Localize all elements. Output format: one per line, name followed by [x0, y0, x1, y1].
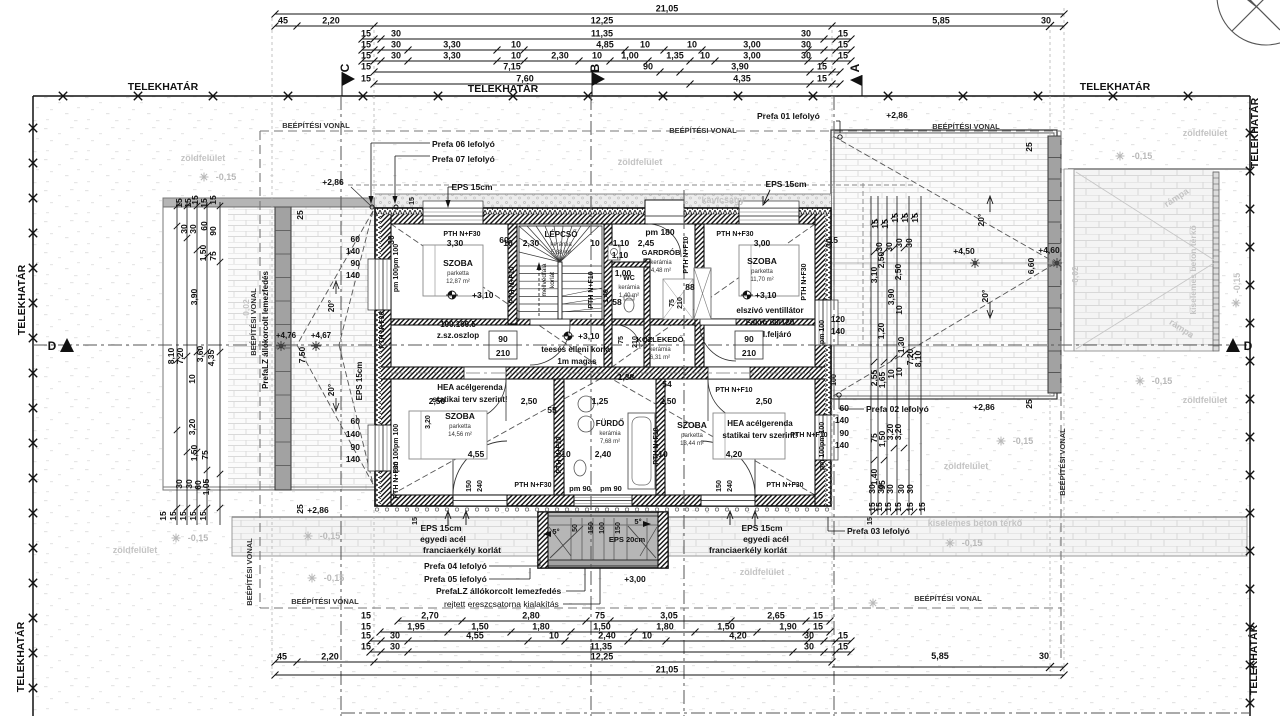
svg-text:3,20: 3,20 [893, 423, 903, 440]
svg-text:FÜRDŐ: FÜRDŐ [596, 419, 624, 428]
svg-text:7,15: 7,15 [503, 62, 521, 72]
svg-text:10: 10 [894, 367, 904, 377]
svg-text:15: 15 [168, 511, 178, 521]
svg-text:+4,60: +4,60 [1038, 245, 1060, 255]
svg-text:54: 54 [662, 379, 672, 389]
svg-text:12,87 m²: 12,87 m² [446, 279, 470, 285]
svg-text:45: 45 [278, 16, 288, 26]
svg-text:100.100.5: 100.100.5 [440, 320, 476, 329]
svg-text:parketta: parketta [449, 424, 471, 430]
svg-text:-0,02: -0,02 [1070, 266, 1080, 286]
svg-text:PTH N+F30: PTH N+F30 [766, 482, 803, 489]
svg-text:10: 10 [894, 305, 904, 315]
svg-text:5°: 5° [634, 517, 641, 526]
svg-text:pm 100pm 100: pm 100pm 100 [819, 422, 826, 470]
svg-text:2,45: 2,45 [638, 238, 655, 248]
svg-text:3,60: 3,60 [195, 345, 205, 362]
svg-text:90: 90 [208, 226, 218, 236]
svg-text:KÖZLEKEDŐ: KÖZLEKEDŐ [636, 335, 683, 344]
svg-text:-0,15: -0,15 [962, 538, 983, 548]
svg-text:PTH N+F30: PTH N+F30 [379, 311, 386, 348]
svg-text:EPS 15cm: EPS 15cm [741, 523, 783, 533]
svg-text:kerámia: kerámia [650, 260, 672, 266]
svg-text:58: 58 [612, 297, 622, 307]
svg-text:30: 30 [391, 51, 401, 61]
svg-text:z.sz.oszlop: z.sz.oszlop [437, 331, 479, 340]
svg-text:20°: 20° [976, 213, 986, 226]
svg-text:BEÉPÍTÉSI VONAL: BEÉPÍTÉSI VONAL [249, 288, 258, 356]
svg-text:100: 100 [831, 374, 838, 386]
svg-text:+3,10: +3,10 [472, 290, 494, 300]
svg-text:4,55: 4,55 [466, 631, 484, 641]
svg-text:EPS 15cm: EPS 15cm [765, 179, 807, 189]
svg-text:7,60: 7,60 [516, 74, 534, 84]
svg-text:+4,67: +4,67 [311, 331, 332, 340]
svg-text:30: 30 [386, 235, 396, 245]
svg-text:15: 15 [838, 40, 848, 50]
svg-text:15: 15 [813, 611, 823, 621]
svg-text:D: D [48, 339, 57, 353]
svg-text:140: 140 [346, 246, 360, 256]
svg-text:1,50: 1,50 [189, 444, 199, 461]
svg-text:zöldfelület: zöldfelület [113, 545, 158, 555]
svg-text:75: 75 [669, 299, 676, 307]
svg-text:1,95: 1,95 [407, 622, 425, 632]
svg-text:25: 25 [295, 210, 305, 220]
svg-text:210: 210 [496, 348, 510, 358]
svg-text:1,25: 1,25 [592, 396, 609, 406]
svg-text:3,10: 3,10 [869, 266, 879, 283]
svg-text:15: 15 [361, 74, 371, 84]
svg-text:150: 150 [716, 480, 723, 492]
svg-text:PTH N+F30: PTH N+F30 [443, 231, 480, 238]
svg-text:240: 240 [727, 480, 734, 492]
svg-text:-0,15: -0,15 [188, 533, 209, 543]
svg-text:60: 60 [499, 235, 509, 245]
svg-text:30: 30 [905, 484, 915, 494]
svg-text:15: 15 [361, 642, 371, 652]
svg-text:30: 30 [188, 224, 198, 234]
svg-text:6,31 m²: 6,31 m² [650, 355, 670, 361]
svg-text:3,90: 3,90 [886, 288, 896, 305]
svg-text:150: 150 [615, 522, 622, 534]
svg-text:10: 10 [642, 631, 652, 641]
svg-text:30: 30 [804, 642, 814, 652]
svg-text:210: 210 [677, 297, 684, 309]
svg-text:3,00: 3,00 [754, 238, 771, 248]
svg-text:12,25: 12,25 [591, 16, 614, 26]
svg-text:-0,15: -0,15 [1152, 376, 1173, 386]
svg-text:PTH N+F30: PTH N+F30 [801, 263, 808, 300]
svg-text:statikai terv szerint!: statikai terv szerint! [432, 395, 507, 404]
svg-text:15: 15 [838, 29, 848, 39]
svg-text:15: 15 [361, 631, 371, 641]
svg-text:150: 150 [466, 480, 473, 492]
svg-text:10: 10 [549, 631, 559, 641]
svg-text:15: 15 [905, 502, 915, 512]
svg-text:1,10: 1,10 [613, 238, 630, 248]
svg-text:LÉPCSŐ: LÉPCSŐ [545, 230, 578, 239]
svg-text:15: 15 [188, 511, 198, 521]
svg-text:15: 15 [361, 40, 371, 50]
svg-text:90: 90 [351, 258, 361, 268]
svg-text:egyedi acél: egyedi acél [420, 534, 466, 544]
svg-text:kiselemes beton térkő: kiselemes beton térkő [1188, 225, 1198, 314]
svg-text:2,40: 2,40 [595, 449, 612, 459]
svg-text:11,35: 11,35 [590, 642, 612, 652]
svg-text:60: 60 [351, 234, 361, 244]
svg-text:Prefa 06 lefolyó: Prefa 06 lefolyó [432, 139, 495, 149]
svg-text:-0,15: -0,15 [1232, 273, 1242, 294]
svg-text:10: 10 [592, 51, 602, 61]
svg-text:90: 90 [744, 334, 754, 344]
svg-text:15: 15 [361, 29, 371, 39]
svg-text:15: 15 [813, 622, 823, 632]
svg-text:5,85: 5,85 [932, 16, 950, 26]
svg-text:zöldfelület: zöldfelület [1183, 395, 1228, 405]
svg-text:1,10: 1,10 [612, 250, 629, 260]
svg-text:Prefa 04 lefolyó: Prefa 04 lefolyó [424, 561, 487, 571]
svg-text:6,60: 6,60 [1026, 257, 1036, 274]
svg-text:TELEKHATÁR: TELEKHATÁR [1080, 80, 1151, 93]
svg-text:TELEKHATÁR: TELEKHATÁR [15, 264, 28, 335]
svg-text:2,50: 2,50 [660, 396, 677, 406]
svg-text:7,20: 7,20 [175, 347, 185, 364]
svg-text:BEÉPÍTÉSI VONAL: BEÉPÍTÉSI VONAL [282, 121, 350, 130]
svg-text:3,20: 3,20 [187, 418, 197, 435]
svg-text:pm 100pm 100: pm 100pm 100 [393, 424, 400, 472]
svg-text:BEÉPÍTÉSI VONAL: BEÉPÍTÉSI VONAL [669, 126, 737, 135]
svg-text:15: 15 [158, 511, 168, 521]
svg-text:PTH N+F10: PTH N+F10 [715, 387, 752, 394]
svg-text:1,35: 1,35 [666, 51, 684, 61]
svg-text:zöldfelület: zöldfelület [618, 157, 663, 167]
svg-text:EPS 15cm: EPS 15cm [355, 362, 364, 401]
svg-text:kerámia: kerámia [599, 431, 621, 437]
svg-text:1,50: 1,50 [198, 244, 208, 261]
svg-text:1,38: 1,38 [618, 372, 635, 382]
svg-text:pm 90: pm 90 [600, 484, 622, 493]
svg-text:45: 45 [277, 652, 287, 662]
svg-text:11,70 m²: 11,70 m² [750, 277, 773, 283]
svg-text:parketta: parketta [447, 271, 469, 277]
svg-text:-0,02: -0,02 [241, 299, 251, 319]
svg-text:90: 90 [351, 442, 361, 452]
svg-text:HEA acélgerenda: HEA acélgerenda [437, 383, 503, 392]
svg-text:15: 15 [817, 74, 827, 84]
svg-text:15: 15 [361, 51, 371, 61]
svg-text:mellvédfala: mellvédfala [541, 263, 548, 296]
svg-text:-0,15: -0,15 [1013, 436, 1034, 446]
svg-text:kerámia: kerámia [649, 347, 671, 353]
svg-text:TELEKHATÁR: TELEKHATÁR [128, 80, 199, 93]
svg-text:15: 15 [838, 642, 848, 652]
svg-text:+3,10: +3,10 [755, 290, 777, 300]
svg-text:75: 75 [208, 251, 218, 261]
svg-text:120: 120 [831, 314, 845, 324]
svg-text:140: 140 [346, 454, 360, 464]
svg-text:Fakro 60/120: Fakro 60/120 [746, 318, 795, 327]
svg-text:3,05: 3,05 [660, 611, 678, 621]
svg-text:20°: 20° [980, 289, 990, 302]
svg-text:30: 30 [390, 642, 400, 652]
svg-text:+2,86: +2,86 [973, 402, 995, 412]
svg-text:kerámia: kerámia [618, 285, 640, 291]
svg-text:+4,50: +4,50 [953, 246, 975, 256]
svg-text:2,70: 2,70 [421, 611, 439, 621]
svg-text:140: 140 [831, 326, 845, 336]
svg-text:75: 75 [200, 450, 210, 460]
svg-text:5,85: 5,85 [931, 651, 949, 661]
svg-text:15: 15 [361, 611, 371, 621]
svg-text:1m magas: 1m magas [557, 357, 597, 366]
svg-text:EPS 15cm: EPS 15cm [420, 523, 462, 533]
svg-text:pm 90: pm 90 [569, 484, 591, 493]
svg-text:5°: 5° [552, 527, 559, 536]
svg-text:Prefa 07 lefolyó: Prefa 07 lefolyó [432, 154, 495, 164]
svg-text:1,00: 1,00 [621, 51, 639, 61]
svg-text:20°: 20° [327, 384, 336, 396]
svg-text:10: 10 [590, 238, 600, 248]
svg-text:10: 10 [687, 40, 697, 50]
svg-text:10: 10 [700, 51, 710, 61]
svg-text:15: 15 [893, 502, 903, 512]
svg-text:4,55: 4,55 [468, 449, 485, 459]
svg-text:+2,86: +2,86 [322, 177, 344, 187]
svg-text:4,20: 4,20 [729, 631, 747, 641]
svg-text:30: 30 [1039, 651, 1049, 661]
svg-text:15: 15 [178, 511, 188, 521]
svg-text:1,90: 1,90 [779, 622, 797, 632]
svg-text:1,80: 1,80 [532, 622, 550, 632]
svg-text:5,88 m²: 5,88 m² [551, 250, 571, 256]
svg-text:statikai terv szerint!: statikai terv szerint! [722, 431, 797, 440]
svg-text:rejtett ereszcsatorna kialakít: rejtett ereszcsatorna kialakítás [444, 599, 559, 609]
svg-text:egyedi acél: egyedi acél [743, 534, 789, 544]
svg-text:zöldfelület: zöldfelület [181, 153, 226, 163]
svg-text:12,25: 12,25 [591, 652, 614, 662]
svg-text:PrefaLZ állókorcolt lemezfedés: PrefaLZ állókorcolt lemezfedés [436, 586, 561, 596]
svg-text:30: 30 [801, 40, 811, 50]
svg-text:1,20: 1,20 [876, 322, 886, 339]
svg-text:2,80: 2,80 [522, 611, 540, 621]
svg-text:140: 140 [835, 440, 849, 450]
svg-text:140: 140 [346, 270, 360, 280]
svg-text:30: 30 [391, 29, 401, 39]
svg-text:75: 75 [618, 336, 625, 344]
svg-text:3,20: 3,20 [425, 415, 432, 429]
svg-text:30: 30 [391, 40, 401, 50]
svg-text:1,40 m²: 1,40 m² [619, 293, 639, 299]
svg-text:PTH N+F30: PTH N+F30 [514, 482, 551, 489]
svg-text:elszívó ventillátor: elszívó ventillátor [736, 306, 803, 315]
svg-text:15: 15 [198, 511, 208, 521]
svg-text:4,85: 4,85 [596, 40, 614, 50]
svg-text:2,50: 2,50 [756, 396, 773, 406]
svg-text:21,05: 21,05 [656, 665, 679, 675]
svg-text:15: 15 [867, 517, 874, 525]
svg-text:+2,86: +2,86 [307, 505, 329, 515]
svg-text:60: 60 [351, 416, 361, 426]
svg-text:pm 180: pm 180 [645, 227, 675, 237]
svg-text:franciaerkély korlát: franciaerkély korlát [423, 545, 501, 555]
svg-text:2,50: 2,50 [876, 251, 886, 268]
svg-text:55: 55 [547, 405, 557, 415]
svg-text:+4,76: +4,76 [276, 331, 297, 340]
svg-text:EPS 15cm: EPS 15cm [451, 182, 493, 192]
svg-text:4,48 m²: 4,48 m² [651, 268, 671, 274]
svg-text:21,05: 21,05 [656, 4, 679, 14]
svg-text:D: D [1244, 339, 1253, 353]
svg-text:1,00: 1,00 [615, 268, 632, 278]
svg-text:-0,15: -0,15 [1132, 151, 1153, 161]
svg-text:1,80: 1,80 [656, 622, 674, 632]
svg-text:30: 30 [885, 484, 895, 494]
svg-text:-0,15: -0,15 [324, 573, 345, 583]
svg-text:franciaerkély korlát: franciaerkély korlát [709, 545, 787, 555]
svg-text:A: A [848, 63, 862, 72]
svg-text:3,90: 3,90 [189, 288, 199, 305]
svg-text:90: 90 [840, 428, 850, 438]
svg-text:parketta: parketta [681, 433, 703, 439]
svg-text:1,40: 1,40 [603, 289, 610, 303]
svg-text:13,44 m²: 13,44 m² [680, 441, 704, 447]
svg-text:zöldfelület: zöldfelület [944, 461, 989, 471]
svg-text:GARDRÓB: GARDRÓB [642, 248, 681, 257]
svg-text:30: 30 [184, 479, 194, 489]
svg-text:4,35: 4,35 [733, 74, 751, 84]
svg-text:PrefaLZ állókorcolt lemezfedés: PrefaLZ állókorcolt lemezfedés [261, 271, 270, 389]
svg-text:90: 90 [498, 334, 508, 344]
svg-text:PTH N+F10: PTH N+F10 [683, 236, 690, 273]
svg-text:140: 140 [346, 429, 360, 439]
svg-text:C: C [338, 63, 352, 72]
svg-text:2,65: 2,65 [767, 611, 785, 621]
svg-text:SZOBA: SZOBA [445, 411, 475, 421]
svg-text:10: 10 [511, 40, 521, 50]
svg-text:240: 240 [477, 480, 484, 492]
svg-text:Prefa 02 lefolyó: Prefa 02 lefolyó [866, 404, 929, 414]
svg-text:14,56 m²: 14,56 m² [448, 432, 472, 438]
svg-text:2,30: 2,30 [523, 238, 540, 248]
svg-text:150: 150 [588, 522, 595, 534]
svg-text:2,20: 2,20 [321, 652, 339, 662]
svg-text:15: 15 [883, 502, 893, 512]
svg-text:TELEKHATÁR: TELEKHATÁR [1248, 97, 1261, 168]
svg-text:2,30: 2,30 [551, 51, 569, 61]
svg-text:75: 75 [595, 611, 605, 621]
svg-text:PTH N+F10: PTH N+F10 [509, 266, 516, 303]
svg-text:-0,15: -0,15 [320, 531, 341, 541]
svg-text:SZOBA: SZOBA [747, 256, 777, 266]
svg-text:30: 30 [174, 479, 184, 489]
svg-text:7,68 m²: 7,68 m² [600, 439, 620, 445]
svg-text:B: B [588, 63, 602, 72]
svg-text:11,35: 11,35 [591, 29, 613, 39]
svg-text:10: 10 [187, 374, 197, 384]
svg-text:3,00: 3,00 [743, 51, 761, 61]
svg-text:BEÉPÍTÉSI VONAL: BEÉPÍTÉSI VONAL [932, 122, 1000, 131]
svg-text:1,05: 1,05 [201, 478, 211, 495]
svg-text:140: 140 [835, 415, 849, 425]
svg-text:PTH N+F10: PTH N+F10 [653, 427, 660, 464]
svg-text:pm 100pm 100: pm 100pm 100 [393, 244, 400, 292]
svg-text:30: 30 [804, 631, 814, 641]
svg-text:BEÉPÍTÉSI VONAL: BEÉPÍTÉSI VONAL [1058, 428, 1067, 496]
svg-text:Prefa 01 lefolyó: Prefa 01 lefolyó [757, 111, 820, 121]
svg-text:korlát: korlát [549, 272, 556, 288]
svg-text:25: 25 [1024, 142, 1034, 152]
svg-text:210: 210 [632, 336, 639, 348]
svg-text:15: 15 [838, 631, 848, 641]
svg-text:HEA acélgerenda: HEA acélgerenda [727, 419, 793, 428]
svg-text:3,30: 3,30 [447, 238, 464, 248]
svg-text:90: 90 [643, 62, 653, 72]
svg-text:TELEKHATÁR: TELEKHATÁR [1247, 624, 1260, 695]
svg-text:15: 15 [817, 62, 827, 72]
svg-text:15: 15 [208, 195, 218, 205]
svg-text:Prefa 03 lefolyó: Prefa 03 lefolyó [847, 526, 910, 536]
svg-text:3,30: 3,30 [443, 51, 461, 61]
svg-text:pm 100: pm 100 [819, 320, 826, 344]
svg-text:25: 25 [1024, 399, 1034, 409]
svg-text:SZOBA: SZOBA [443, 258, 473, 268]
svg-text:60: 60 [840, 403, 850, 413]
svg-text:2,40: 2,40 [598, 631, 616, 641]
svg-text:3,30: 3,30 [443, 40, 461, 50]
svg-text:15: 15 [838, 51, 848, 61]
svg-text:20°: 20° [327, 300, 336, 312]
svg-text:4,20: 4,20 [726, 449, 743, 459]
svg-text:kerámia: kerámia [550, 242, 572, 248]
svg-text:4,35: 4,35 [206, 349, 216, 366]
svg-text:BEÉPÍTÉSI VONAL: BEÉPÍTÉSI VONAL [914, 594, 982, 603]
svg-text:10: 10 [640, 40, 650, 50]
svg-text:30: 30 [801, 29, 811, 39]
svg-text:zöldfelület: zöldfelület [740, 567, 785, 577]
svg-text:50: 50 [572, 524, 579, 532]
svg-text:100: 100 [599, 522, 606, 534]
svg-text:3,00: 3,00 [743, 40, 761, 50]
svg-text:kiselemes beton térkő: kiselemes beton térkő [928, 518, 1023, 528]
svg-text:teesés elleni korlát: teesés elleni korlát [541, 345, 613, 354]
svg-text:15: 15 [412, 517, 419, 525]
svg-text:15: 15 [917, 502, 927, 512]
svg-text:PTH N+F10: PTH N+F10 [556, 436, 563, 473]
svg-text:-0,15: -0,15 [216, 172, 237, 182]
svg-text:Prefa 05 lefolyó: Prefa 05 lefolyó [424, 574, 487, 584]
svg-text:15: 15 [361, 62, 371, 72]
svg-text:10: 10 [511, 51, 521, 61]
svg-text:15: 15 [409, 197, 416, 205]
svg-text:+3,00: +3,00 [624, 574, 646, 584]
svg-text:+3,10: +3,10 [578, 331, 600, 341]
svg-text:BEÉPÍTÉSI VONAL: BEÉPÍTÉSI VONAL [245, 538, 254, 606]
svg-text:PTH N+F30: PTH N+F30 [716, 231, 753, 238]
svg-text:SZOBA: SZOBA [677, 420, 707, 430]
svg-text:TELEKHATÁR: TELEKHATÁR [14, 621, 27, 692]
svg-text:30: 30 [824, 238, 834, 248]
svg-text:2,50: 2,50 [521, 396, 538, 406]
svg-text:+2,86: +2,86 [886, 110, 908, 120]
svg-text:3,90: 3,90 [731, 62, 749, 72]
svg-text:88: 88 [685, 282, 695, 292]
svg-text:7,50: 7,50 [297, 346, 307, 363]
svg-text:30: 30 [801, 51, 811, 61]
svg-text:2,50: 2,50 [893, 263, 903, 280]
svg-text:2,20: 2,20 [322, 16, 340, 26]
svg-text:25: 25 [295, 504, 305, 514]
